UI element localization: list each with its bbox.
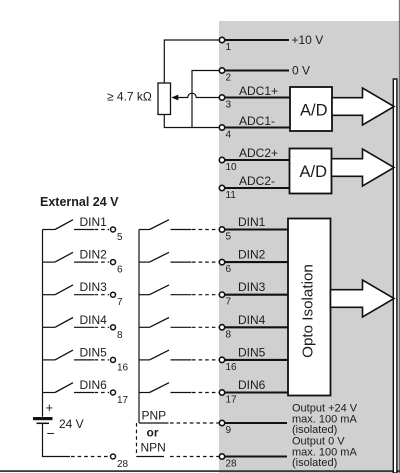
potentiometer bottom wire to terminal 4	[164, 115, 219, 128]
svg-text:2: 2	[226, 73, 232, 84]
switch DIN1 (left)	[43, 220, 110, 230]
svg-text:6: 6	[226, 264, 232, 275]
svg-text:ADC1-: ADC1-	[239, 114, 275, 128]
wire from terminal 2 down	[192, 71, 220, 128]
grey terminal-strip background	[219, 21, 400, 473]
wire output +24 V (terminal 9)	[224, 422, 287, 424]
arrow from U2 to bus	[332, 149, 395, 186]
wire +10V thick	[224, 39, 289, 41]
switch DIN2 (internal option)	[139, 252, 219, 262]
Opto Isolation box U3	[288, 219, 331, 396]
svg-text:28: 28	[226, 459, 238, 470]
svg-text:PNP: PNP	[142, 409, 167, 423]
bottom page border	[0, 470, 400, 472]
terminal 1	[219, 37, 224, 42]
terminal 10	[219, 157, 224, 162]
svg-text:10: 10	[226, 162, 238, 173]
switch DIN6 (left)	[43, 383, 110, 393]
label Output +24 V max. 100 mA (isolated)	[292, 403, 358, 437]
NPN dashed vertical	[136, 423, 138, 457]
svg-text:5: 5	[226, 232, 232, 243]
svg-text:8: 8	[117, 330, 123, 341]
switch DIN1 (internal option)	[139, 220, 219, 230]
potentiometer R1 body	[158, 83, 171, 115]
svg-text:16: 16	[226, 362, 238, 373]
svg-text:4: 4	[226, 130, 232, 141]
wire ADC1- thick	[224, 126, 291, 128]
node 7 (left)	[111, 292, 116, 297]
terminal 8	[219, 325, 224, 330]
svg-text:External 24 V: External 24 V	[40, 195, 119, 209]
svg-text:DIN2: DIN2	[80, 248, 108, 262]
left bus wire	[42, 230, 44, 417]
A/D converter U1	[290, 87, 332, 131]
node 28 left circle	[111, 454, 116, 459]
terminal 7	[219, 292, 224, 297]
svg-text:7: 7	[226, 297, 232, 308]
svg-text:3: 3	[226, 100, 232, 111]
svg-text:+: +	[46, 400, 54, 415]
terminal 2	[219, 68, 224, 73]
svg-text:NPN: NPN	[141, 441, 166, 455]
wire ADC2+ thick	[224, 159, 290, 161]
svg-text:6: 6	[117, 265, 123, 276]
svg-text:ADC2-: ADC2-	[239, 174, 275, 188]
arrow from U3 to bus	[331, 280, 395, 317]
switch DIN2 (left)	[43, 252, 110, 262]
switch DIN4 (internal option)	[139, 318, 219, 328]
arrow from U1 to bus	[332, 88, 394, 125]
node 6 (left)	[111, 260, 116, 265]
label Output 0 V max. 100 mA (isolated)	[292, 436, 357, 470]
svg-text:DIN4: DIN4	[238, 313, 266, 327]
wire DIN6 to opto isolation	[224, 391, 289, 393]
svg-text:DIN2: DIN2	[238, 248, 266, 262]
terminal 6	[219, 259, 224, 264]
node 8 (left)	[111, 325, 116, 330]
svg-text:DIN4: DIN4	[80, 313, 108, 327]
svg-text:A/D: A/D	[300, 102, 328, 120]
wire output 0 V (terminal 28)	[224, 455, 287, 457]
svg-text:DIN3: DIN3	[238, 280, 266, 294]
switch DIN3 (left)	[43, 285, 110, 295]
svg-text:17: 17	[226, 395, 238, 406]
wire DIN5 to opto isolation	[224, 359, 289, 361]
terminal 16	[219, 357, 224, 362]
PNP wire	[139, 422, 169, 424]
svg-text:≥ 4.7 kΩ: ≥ 4.7 kΩ	[107, 90, 152, 104]
wire ADC1+ thick	[224, 96, 291, 98]
svg-text:28: 28	[117, 459, 129, 470]
terminal 11	[219, 185, 224, 190]
svg-text:−: −	[47, 425, 55, 441]
svg-text:A/D: A/D	[300, 163, 328, 181]
svg-text:(isolated): (isolated)	[292, 424, 337, 436]
svg-text:ADC1+: ADC1+	[239, 84, 278, 98]
terminal 5	[219, 227, 224, 232]
svg-text:DIN6: DIN6	[238, 378, 266, 392]
switch DIN5 (internal option)	[139, 350, 219, 360]
wiper wire with hop from terminal 3	[177, 93, 220, 97]
middle bus wire	[138, 230, 140, 424]
svg-text:1: 1	[226, 42, 232, 53]
potentiometer top wire	[164, 40, 219, 83]
switch DIN5 (left)	[43, 350, 110, 360]
switch DIN3 (internal option)	[139, 285, 219, 295]
wire ADC2- thick	[224, 187, 290, 189]
svg-text:9: 9	[226, 425, 232, 436]
svg-text:+10 V: +10 V	[292, 33, 324, 47]
svg-text:ADC2+: ADC2+	[239, 146, 278, 160]
wire 0V thick	[224, 69, 289, 71]
battery BT1 24 V	[33, 417, 53, 423]
wire DIN2 to opto isolation	[224, 261, 289, 263]
terminal 28	[219, 454, 224, 459]
svg-text:7: 7	[117, 297, 123, 308]
wire DIN3 to opto isolation	[224, 294, 289, 296]
svg-text:5: 5	[117, 232, 123, 243]
wiper arrowhead	[171, 95, 178, 101]
svg-text:(isolated): (isolated)	[292, 457, 337, 469]
svg-text:DIN3: DIN3	[80, 280, 108, 294]
terminal 3	[219, 95, 224, 100]
terminal 17	[219, 390, 224, 395]
node 16 (left)	[111, 357, 116, 362]
terminal 9	[219, 420, 224, 425]
switch DIN4 (left)	[43, 318, 110, 328]
svg-text:8: 8	[226, 329, 232, 340]
svg-text:0 V: 0 V	[292, 64, 310, 78]
NPN wire	[137, 456, 165, 458]
node 5 (left)	[111, 227, 116, 232]
wire DIN4 to opto isolation	[224, 326, 289, 328]
right page border	[398, 0, 400, 473]
battery bottom lead	[43, 424, 71, 457]
terminal 4	[219, 125, 224, 130]
svg-text:DIN6: DIN6	[80, 378, 108, 392]
dashed to node 28 left	[71, 456, 110, 458]
svg-text:DIN1: DIN1	[80, 215, 108, 229]
svg-text:or: or	[147, 426, 159, 440]
svg-text:16: 16	[117, 362, 129, 373]
svg-text:11: 11	[226, 190, 237, 201]
switch DIN6 (internal option)	[139, 383, 219, 393]
wire DIN1 to opto isolation	[224, 228, 289, 230]
node 17 (left)	[111, 390, 116, 395]
svg-text:17: 17	[117, 395, 129, 406]
A/D converter U2	[290, 149, 332, 194]
terminal bus bar (double vertical line)	[393, 79, 397, 473]
svg-text:DIN5: DIN5	[80, 345, 108, 359]
svg-text:DIN1: DIN1	[238, 215, 266, 229]
svg-text:Opto Isolation: Opto Isolation	[300, 264, 317, 358]
svg-text:DIN5: DIN5	[238, 345, 266, 359]
svg-text:24 V: 24 V	[59, 417, 84, 431]
